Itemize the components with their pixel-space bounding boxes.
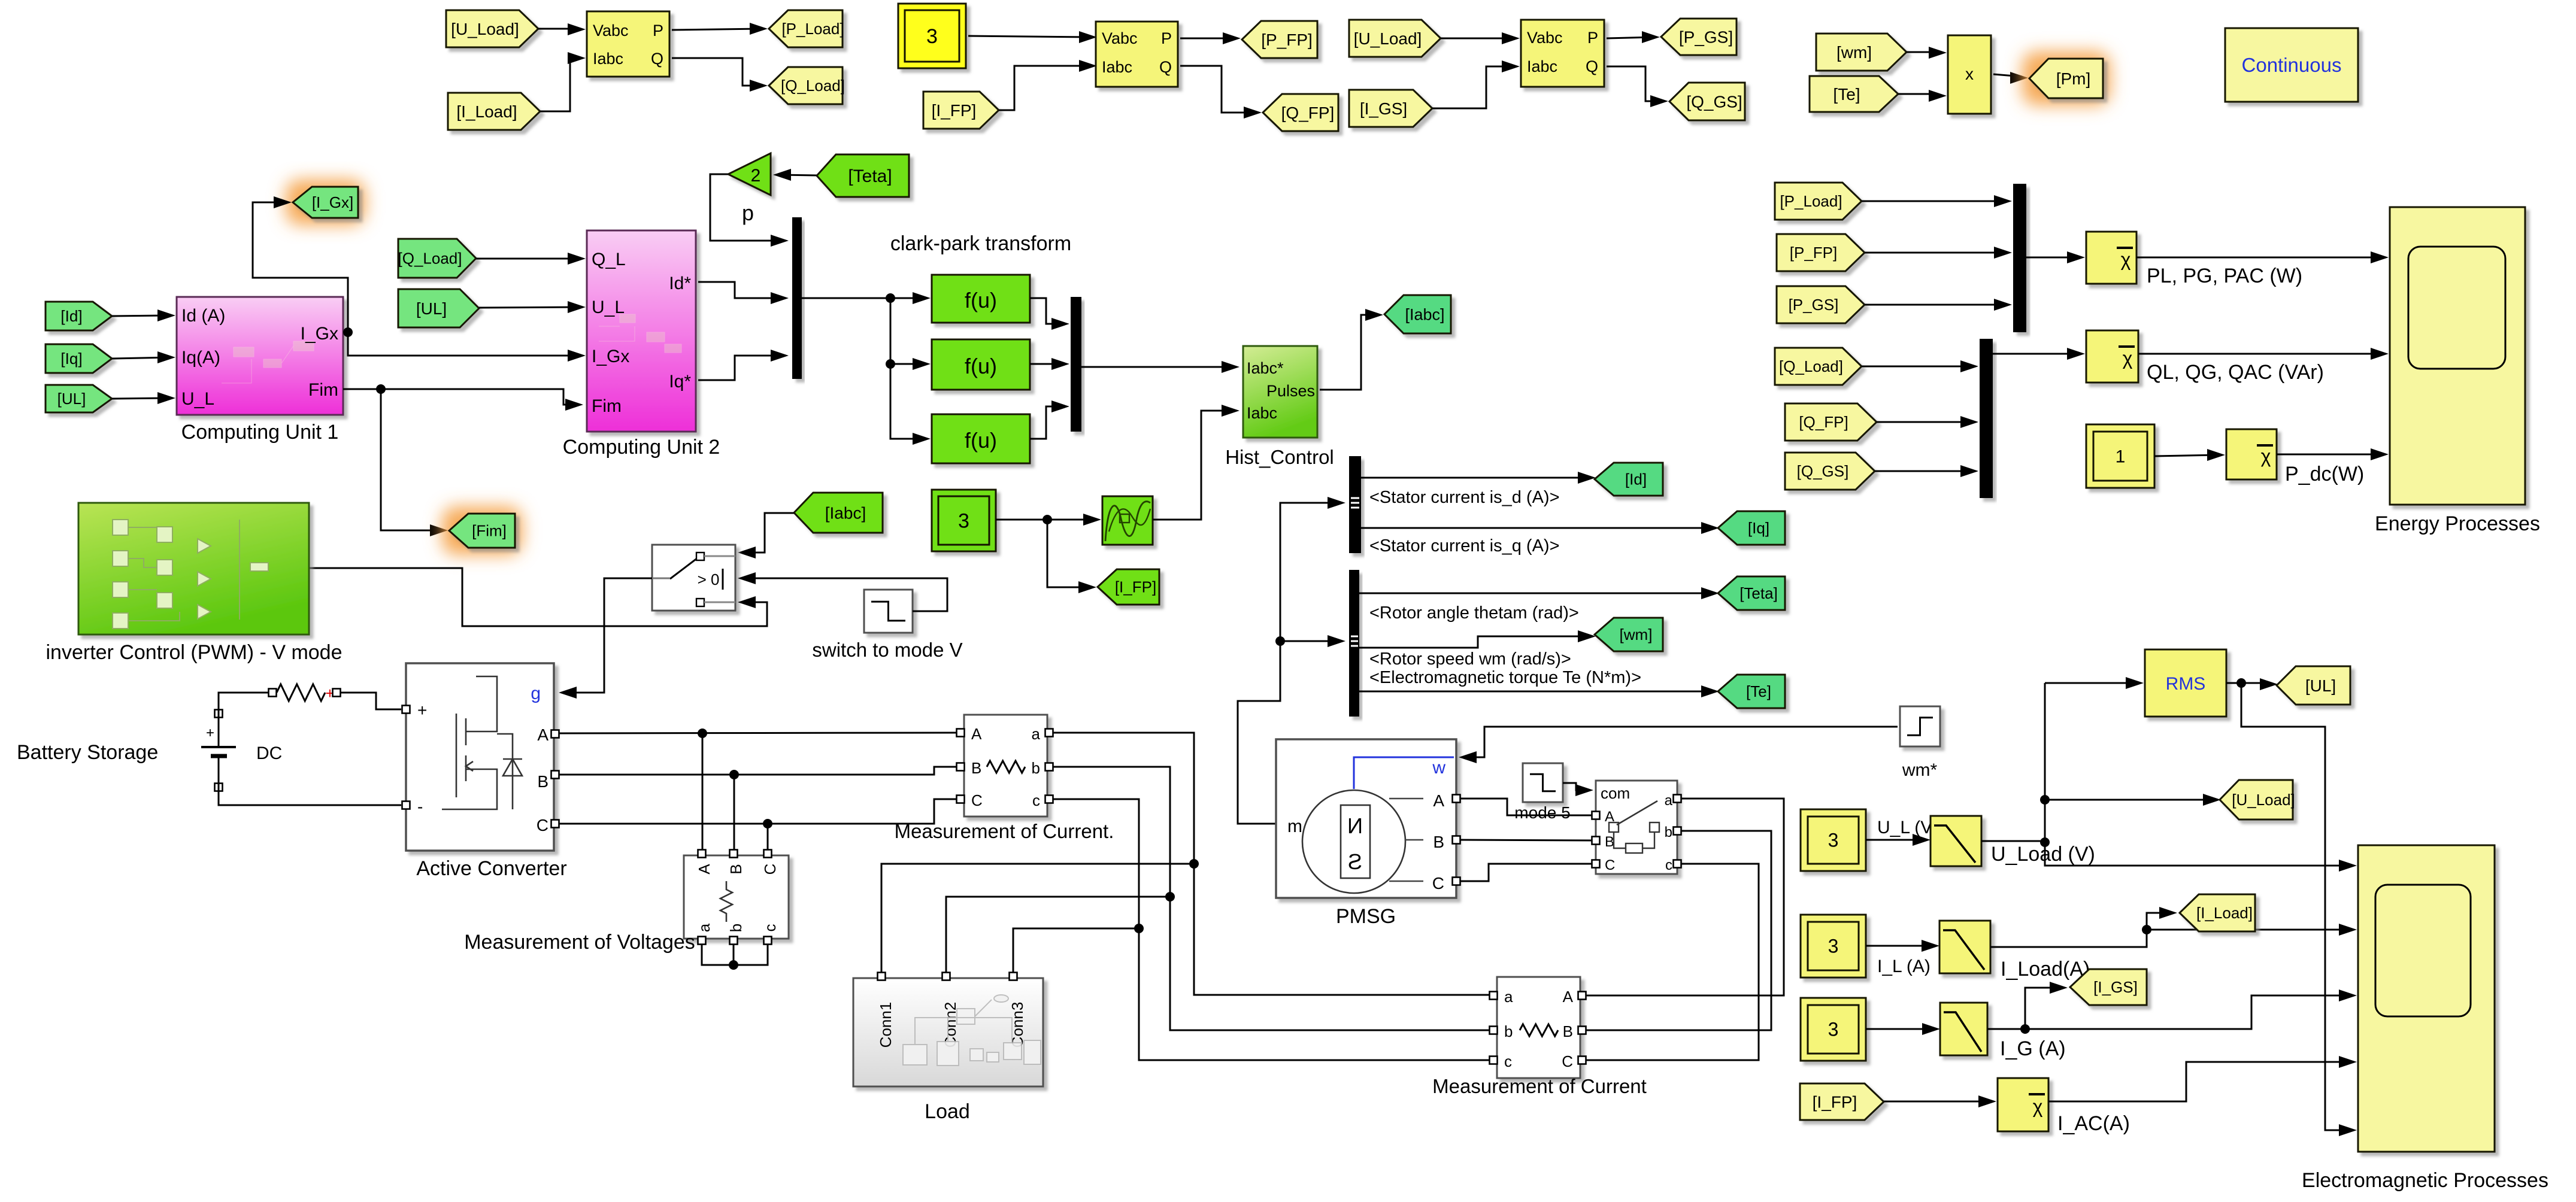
svg-text:A: A [1433, 791, 1444, 810]
svg-text:[P_GS]: [P_GS] [1789, 296, 1839, 314]
svg-text:a: a [1665, 793, 1673, 809]
wire spectrum to Hist_Control Iabc [1153, 411, 1234, 520]
svg-text:Computing Unit 1: Computing Unit 1 [181, 421, 339, 444]
subsystem Computing Unit 1 [177, 297, 343, 415]
svg-text:3: 3 [1828, 830, 1839, 851]
svg-text:U_L: U_L [181, 389, 214, 409]
svg-text:[Id]: [Id] [60, 307, 82, 325]
wire step to switch input 2 [744, 578, 947, 611]
svg-text:C: C [761, 864, 779, 875]
wire phase c chain [1053, 799, 1490, 1060]
wire to [Te] [1359, 691, 1713, 693]
wire switch output to converter g [565, 578, 652, 693]
wire U_Load to Vabc [538, 28, 580, 30]
svg-text:x: x [1965, 65, 1974, 83]
svg-text:[Iabc]: [Iabc] [1405, 305, 1444, 323]
goto tag [I_GS] yellow [2070, 969, 2147, 1005]
gain triangle 2 (mirrored) [728, 153, 771, 195]
svg-text:C: C [1562, 1052, 1573, 1070]
wire Teta to gain [779, 175, 817, 175]
wire wm* to PMSG w [1465, 727, 1898, 757]
demux rotor signals [1349, 570, 1359, 717]
wire mux P to mean [2026, 257, 2079, 259]
svg-text:[I_GS]: [I_GS] [2093, 978, 2138, 996]
svg-text:3: 3 [958, 509, 969, 532]
svg-text:[Pm]: [Pm] [2056, 69, 2091, 88]
svg-text:Load: Load [925, 1100, 970, 1123]
wires PMSG to com switch [1460, 799, 1592, 815]
svg-text:[UL]: [UL] [416, 299, 447, 318]
wire I_Load to Iabc [540, 58, 580, 111]
svg-text:U_L (V): U_L (V) [1877, 818, 1938, 837]
goto tag [I_FP] green [1098, 569, 1159, 605]
svg-text:P: P [1161, 29, 1172, 47]
product block x [1948, 35, 1991, 114]
svg-text:[Fim]: [Fim] [472, 522, 507, 540]
svg-text:a: a [1504, 988, 1513, 1006]
svg-text:com: com [1601, 784, 1630, 802]
goto tag [Q_GS] [1669, 83, 1745, 120]
svg-text:1: 1 [2116, 447, 2126, 467]
wire phase C to voltage meas [767, 824, 769, 850]
svg-text:b: b [1032, 759, 1040, 777]
wire Fim output [343, 389, 577, 405]
svg-text:Fim: Fim [308, 380, 338, 400]
svg-text:A: A [971, 725, 982, 743]
wire 3 to filter I_L [1866, 945, 1933, 947]
subsystem Load [853, 978, 1043, 1086]
svg-text:U_Load (V): U_Load (V) [1991, 843, 2095, 866]
svg-text:[Iabc]: [Iabc] [825, 503, 866, 522]
svg-text:B: B [971, 759, 981, 777]
wire Te to product [1898, 94, 1941, 96]
from tag [I_GS] [1349, 90, 1432, 127]
battery DC source symbol [218, 717, 220, 746]
svg-text:Computing Unit 2: Computing Unit 2 [563, 436, 720, 459]
mux bar clark-park input [792, 217, 802, 379]
svg-text:χ: χ [2261, 445, 2271, 467]
svg-text:> 0: > 0 [698, 570, 720, 588]
wire filter to scope input1 [1981, 840, 2045, 842]
svg-text:B: B [1605, 834, 1614, 850]
svg-text:a: a [695, 923, 713, 932]
mean block I_AC [1998, 1078, 2048, 1131]
wire phase B to voltage meas [734, 775, 735, 850]
from tag [U_Load] (GS) [1349, 20, 1441, 57]
wire P to [P_GS] [1607, 37, 1654, 38]
constant 3 block green [932, 490, 996, 551]
svg-text:wm*: wm* [1902, 760, 1938, 780]
svg-text:3: 3 [1828, 936, 1839, 957]
svg-text:Vabc: Vabc [1102, 29, 1138, 47]
riser to RMS with U_Load branch [2044, 683, 2046, 842]
wire P to [P_Load] [672, 29, 762, 30]
svg-text:<Rotor speed wm (rad/s)>: <Rotor speed wm (rad/s)> [1369, 649, 1571, 669]
svg-text:[I_FP]: [I_FP] [1813, 1092, 1857, 1111]
svg-text:p: p [742, 201, 754, 225]
svg-text:clark-park transform: clark-park transform [890, 232, 1071, 255]
svg-text:χ: χ [2033, 1096, 2043, 1118]
svg-text:switch to mode V: switch to mode V [812, 639, 962, 661]
wire 3 to filter I_G [1866, 1028, 1934, 1030]
svg-text:Vabc: Vabc [1527, 29, 1563, 47]
svg-text:2: 2 [751, 166, 761, 186]
wire branch to Load Conn3 [1013, 928, 1139, 974]
goto tag [P_Load] [769, 10, 842, 47]
from tag [UL] [46, 385, 112, 412]
svg-text:b: b [727, 924, 745, 932]
svg-text:[Id]: [Id] [1625, 471, 1647, 488]
fcn block f(u) 2 [932, 339, 1030, 390]
wire I_Gx output branch to tag [253, 202, 348, 332]
svg-text:P: P [653, 22, 663, 40]
goto tag [wm] spring [1595, 618, 1663, 651]
svg-text:Pulses: Pulses [1266, 382, 1315, 400]
goto tag [Te] spring [1718, 675, 1785, 708]
wire phase B bus [559, 767, 957, 775]
svg-text:<Stator current is_q (A)>: <Stator current is_q (A)> [1369, 536, 1560, 556]
powergui block Continuous [2225, 28, 2358, 102]
constant 3 I_L [1801, 915, 1866, 978]
mean block Pdc [2226, 429, 2277, 479]
svg-text:Electromagnetic Processes: Electromagnetic Processes [2302, 1169, 2548, 1192]
block Measurement of Current top [964, 715, 1047, 816]
svg-text:[I_FP]: [I_FP] [1115, 578, 1156, 596]
wire RMS out to [UL] [2226, 682, 2272, 684]
svg-text:[I_GS]: [I_GS] [1360, 99, 1407, 118]
power block P_FP [1096, 22, 1178, 87]
wire branch to [U_Load] [2045, 799, 2215, 801]
wire mean IAC to scope input4 [2048, 1062, 2351, 1101]
svg-text:I_Gx: I_Gx [592, 347, 629, 366]
svg-text:[U_Load]: [U_Load] [451, 20, 519, 38]
svg-text:χ: χ [2121, 249, 2131, 271]
wires com outputs to current meas [1586, 799, 1784, 995]
svg-text:m: m [1287, 816, 1302, 836]
svg-text:Q_L: Q_L [592, 250, 626, 269]
svg-text:P: P [1587, 29, 1598, 47]
svg-text:[U_Load]: [U_Load] [2232, 791, 2295, 809]
svg-text:[Q_Load]: [Q_Load] [781, 77, 845, 95]
goto tag [Fim] (highlighted) [442, 506, 522, 555]
goto tag [Teta] spring [1718, 576, 1785, 610]
svg-text:[Q_FP]: [Q_FP] [1799, 413, 1848, 431]
spectrum analyzer block [1102, 496, 1153, 545]
wire branch to [I_FP] green [1047, 520, 1090, 587]
svg-text:χ: χ [2123, 348, 2133, 369]
wire resistor to converter + [341, 693, 401, 709]
svg-text:3: 3 [1828, 1019, 1839, 1040]
wire Q to [Q_GS] [1607, 66, 1662, 101]
svg-text:S: S [1348, 849, 1362, 874]
svg-text:3: 3 [926, 25, 938, 48]
svg-text:[Iq]: [Iq] [60, 350, 82, 368]
filter block U_L [1931, 816, 1981, 866]
wire UL to CU2 [479, 307, 580, 308]
wire mean Pdc to scope [2277, 454, 2383, 456]
wire Pulses to [Iabc] goto [1320, 315, 1377, 390]
wire branch to Load Conn2 [946, 897, 1170, 974]
from tag [Q_Load] green [398, 239, 476, 278]
svg-text:Continuous: Continuous [2242, 54, 2342, 76]
svg-text:[Q_GS]: [Q_GS] [1686, 92, 1742, 111]
svg-text:[P_FP]: [P_FP] [1790, 244, 1837, 262]
svg-text:a: a [1032, 725, 1041, 743]
demux stator currents [1349, 456, 1361, 553]
svg-text:c: c [761, 924, 779, 932]
svg-text:[wm]: [wm] [1620, 626, 1653, 644]
goto tag [UL] yellow [2277, 666, 2350, 705]
from tag [Q_GS] right [1785, 453, 1875, 490]
svg-text:[wm]: [wm] [1836, 43, 1872, 62]
wire product to [Pm] [1993, 74, 2022, 77]
wire mux to f(u) blocks [802, 298, 925, 299]
wire voltage meas ground link [702, 944, 768, 965]
wire phase a to load and meas [1053, 733, 1490, 995]
from tag [Iabc] at switch [794, 493, 883, 533]
svg-text:[I_FP]: [I_FP] [932, 101, 977, 120]
svg-text:I_Gx: I_Gx [301, 324, 338, 344]
svg-text:Iabc: Iabc [1247, 404, 1277, 422]
svg-text:I_AC(A): I_AC(A) [2057, 1112, 2130, 1135]
svg-text:A: A [695, 864, 713, 875]
wire I_GS to Iabc GS [1432, 66, 1514, 108]
svg-text:N: N [1347, 814, 1363, 838]
from tag [Te] [1810, 76, 1898, 112]
wire branch to Load Conn1 [881, 864, 1194, 974]
from tag [Q_Load] right [1775, 348, 1862, 385]
wire Iq* to mux [698, 356, 783, 380]
wire branch to rotor demux [1280, 641, 1339, 642]
svg-text:[UL]: [UL] [57, 390, 86, 408]
wire to [Iq] [1361, 527, 1713, 529]
svg-text:Measurement of Voltages: Measurement of Voltages [464, 931, 695, 954]
converter IGBT and diode glyphs [442, 676, 522, 809]
svg-text:f(u): f(u) [965, 288, 997, 312]
svg-text:C: C [1605, 857, 1615, 873]
wire to [wm] [1359, 636, 1590, 648]
svg-text:c: c [1665, 857, 1672, 873]
power block P_Load (Vabc,Iabc->P,Q) [587, 11, 669, 77]
svg-text:U_L: U_L [592, 298, 625, 317]
svg-text:Measurement of Current.: Measurement of Current. [895, 820, 1114, 842]
goto tag [Q_FP] [1263, 94, 1338, 131]
from tag [Id] [46, 302, 112, 330]
svg-text:RMS: RMS [2166, 674, 2206, 694]
filter block I_G [1940, 1003, 1987, 1055]
svg-text:C: C [537, 816, 548, 834]
wire RMS branch down to scope [2241, 683, 2351, 1130]
svg-text:A: A [537, 726, 548, 744]
from tag [I_FP] bottom [1800, 1083, 1884, 1120]
wire mean to Energy scope [2136, 257, 2383, 259]
svg-text:Id*: Id* [669, 274, 691, 293]
wire mux Q to mean [1993, 353, 2079, 355]
svg-text:<Stator current is_d (A)>: <Stator current is_d (A)> [1369, 488, 1560, 507]
svg-text:Iabc: Iabc [1527, 57, 1557, 75]
svg-text:Battery Storage: Battery Storage [17, 741, 158, 764]
wire to [Teta] [1359, 593, 1713, 594]
svg-text:PMSG: PMSG [1336, 905, 1396, 928]
wire Fim branch to tag [381, 389, 442, 530]
from tag [U_Load] [446, 10, 538, 47]
from tag [wm] [1816, 34, 1907, 71]
svg-text:[Te]: [Te] [1746, 682, 1771, 700]
wire I_Gx to Computing Unit 2 [348, 332, 580, 356]
svg-text:Measurement of Current: Measurement of Current [1432, 1075, 1647, 1097]
svg-text:Q: Q [651, 50, 663, 68]
mux bar P [2013, 184, 2026, 332]
goto tag [Id] spring [1595, 463, 1663, 496]
goto tag [Pm] (highlighted) [2022, 51, 2110, 105]
constant 1 block [2086, 424, 2154, 488]
wire phase A to voltage meas [702, 733, 704, 850]
switch block (mirrored) [652, 545, 735, 611]
svg-text:[Q_GS]: [Q_GS] [1797, 462, 1849, 480]
subsystem Hist_Control [1243, 346, 1317, 438]
svg-text:C: C [1432, 874, 1444, 893]
constant 3 I_G [1801, 998, 1866, 1061]
wire Q to [Q_FP] [1180, 66, 1256, 113]
svg-text:I_Load(A): I_Load(A) [2001, 958, 2090, 981]
from tag [I_FP] [923, 92, 999, 129]
svg-text:[UL]: [UL] [2305, 676, 2336, 695]
svg-text:PL, PG, PAC (W): PL, PG, PAC (W) [2147, 265, 2302, 287]
svg-text:Active Converter: Active Converter [416, 857, 566, 880]
from tag [UL] green [398, 289, 479, 327]
wire I_FP to mean [1884, 1101, 1990, 1103]
svg-text:g: g [531, 684, 541, 703]
svg-text:Conn1: Conn1 [877, 1002, 895, 1048]
wire Id* to mux [698, 282, 783, 298]
svg-text:c: c [1504, 1052, 1512, 1070]
wire Hist pulses... (m measurement chain) [1238, 503, 1339, 824]
from tag [Teta] [817, 154, 909, 197]
wire mux2 to Hist_Control Iabc* [1081, 366, 1234, 368]
from tag [Iq] [46, 344, 112, 373]
svg-text:I_G (A): I_G (A) [2000, 1037, 2066, 1060]
svg-text:c: c [1032, 791, 1040, 809]
from tag [I_Load] [448, 93, 540, 130]
scope Energy Processes [2390, 207, 2525, 505]
goto tag [Iq] spring [1718, 511, 1785, 545]
svg-text:[P_Load]: [P_Load] [1780, 192, 1842, 210]
machine block PMSG [1276, 739, 1456, 898]
svg-text:Hist_Control: Hist_Control [1225, 446, 1334, 468]
mean block QL [2086, 330, 2138, 383]
svg-text:A: A [1563, 988, 1574, 1006]
constant 3 block (bright yellow) [898, 4, 966, 68]
goto tag [I_Gx] (highlighted) [286, 180, 365, 225]
block RMS [2145, 649, 2226, 717]
svg-text:[I_Gx]: [I_Gx] [312, 193, 353, 211]
wire filter to I_Load branch and scope input2 [1990, 913, 2171, 947]
fcn block f(u) 3 [932, 414, 1030, 463]
filter block I_L [1939, 921, 1990, 973]
wire to [Id] [1361, 477, 1590, 479]
wire gain to mux p input [710, 174, 783, 241]
from tag [Q_FP] right [1785, 403, 1877, 441]
from tag [P_Load] right [1775, 183, 1862, 220]
wire Q to [Q_Load] [672, 58, 762, 86]
svg-text:[P_Load]: [P_Load] [781, 20, 844, 38]
svg-text:mode 5: mode 5 [1514, 803, 1570, 822]
step block switch to mode V [864, 590, 913, 633]
power block P_GS [1521, 20, 1604, 87]
svg-text:Q: Q [1159, 58, 1172, 76]
svg-text:Id (A): Id (A) [181, 306, 225, 326]
wire wm to product [1907, 51, 1941, 53]
svg-text:QL, QG, QAC (VAr): QL, QG, QAC (VAr) [2147, 361, 2324, 384]
wire 3 to Vabc FP [968, 36, 1091, 37]
goto tag [P_FP] [1242, 21, 1317, 58]
wire mean QL to Energy scope [2138, 353, 2383, 355]
svg-text:[Te]: [Te] [1833, 85, 1860, 104]
scope Electromagnetic Processes [2358, 845, 2495, 1152]
wire Q_Load to CU2 [476, 258, 580, 260]
wire mode5 to com [1563, 783, 1584, 790]
svg-text:B: B [1563, 1022, 1573, 1040]
from tag [P_FP] right [1777, 234, 1865, 271]
block Measurement of Current bottom [1497, 977, 1580, 1078]
svg-text:[Teta]: [Teta] [1739, 584, 1778, 602]
svg-text:Energy Processes: Energy Processes [2375, 512, 2540, 535]
svg-text:B: B [1433, 833, 1444, 851]
svg-text:Iq*: Iq* [669, 372, 691, 391]
wire phase C bus [559, 799, 957, 824]
svg-text:[Teta]: [Teta] [848, 166, 892, 186]
step block mode 5 [1523, 763, 1563, 802]
wire Iabc to switch input 1 [744, 513, 794, 553]
svg-text:[P_FP]: [P_FP] [1261, 31, 1313, 49]
svg-text:[P_GS]: [P_GS] [1679, 28, 1733, 46]
svg-text:+: + [417, 701, 427, 720]
svg-text:Iabc: Iabc [593, 50, 623, 68]
svg-text:f(u): f(u) [965, 354, 997, 378]
wire 3 to filter U_L [1866, 839, 1925, 841]
svg-text:-: - [417, 797, 423, 816]
wire battery + to resistor [219, 693, 269, 717]
constant 3 U_L [1801, 809, 1866, 871]
goto tag [Iabc] spring [1384, 295, 1451, 333]
from tag [P_GS] right [1777, 286, 1865, 323]
wires f(u) to mux2 [1030, 298, 1063, 324]
fcn block f(u) 1 [932, 275, 1030, 323]
wire inverter output to switch input 3 [309, 568, 767, 626]
svg-text:C: C [971, 791, 983, 809]
svg-text:[I_Load]: [I_Load] [2196, 904, 2253, 922]
svg-text:<Rotor angle thetam (rad)>: <Rotor angle thetam (rad)> [1369, 603, 1579, 623]
wire U_Load to Vabc GS [1441, 38, 1514, 40]
subsystem Computing Unit 2 [587, 230, 696, 432]
svg-text:[Q_Load]: [Q_Load] [398, 250, 462, 268]
wire P to [P_FP] [1180, 38, 1235, 40]
wire 3 to spectrum block [996, 519, 1095, 521]
svg-text:b: b [1504, 1022, 1513, 1040]
svg-text:[I_Load]: [I_Load] [456, 102, 517, 121]
svg-text:[Q_Load]: [Q_Load] [1779, 357, 1843, 375]
wires Id Iq UL to Computing Unit 1 [112, 315, 169, 316]
wires Q tags to mux [1862, 366, 1972, 368]
subsystem inverter Control (PWM) - V mode [78, 503, 309, 635]
svg-text:w: w [1432, 758, 1445, 778]
wire filter IG branch to I_GS and scope input3 [1987, 995, 2351, 1029]
goto tag [Q_Load] [769, 67, 842, 104]
wire phase A bus [559, 733, 957, 733]
mean block PL [2086, 232, 2136, 284]
svg-text:DC: DC [256, 743, 282, 763]
svg-text:B: B [727, 864, 745, 874]
